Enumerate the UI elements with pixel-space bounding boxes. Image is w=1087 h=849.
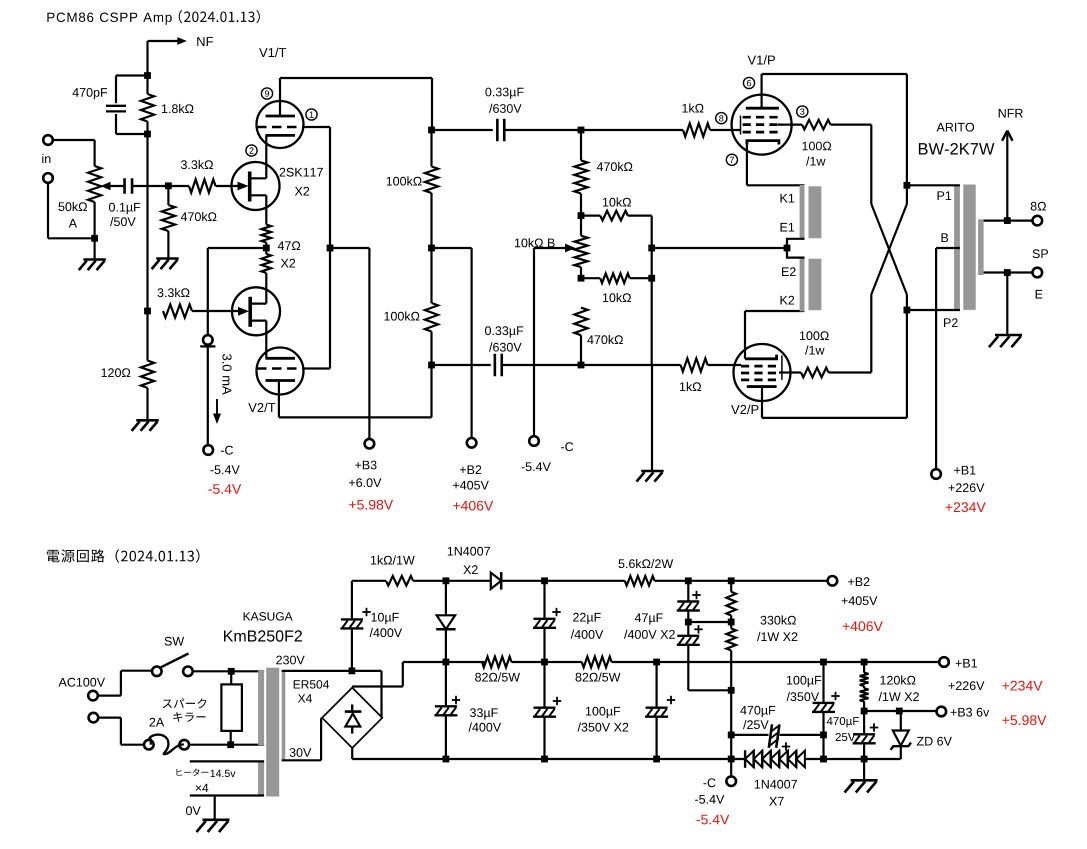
label E1	[781, 223, 795, 232]
wire to 330k top	[688, 580, 731, 582]
ground heater	[214, 796, 216, 820]
zener ZD 6V	[900, 711, 902, 731]
node A bottom junction	[144, 131, 151, 138]
title PCM86 CSPP Amp (2024.01.13)	[47, 13, 171, 25]
capacitor 0.33uF/630V upper	[432, 129, 493, 131]
diode 1N4007 X2	[446, 580, 491, 582]
transformer T2 heater winding	[258, 761, 264, 796]
wire +B3 line	[864, 710, 937, 712]
wire to grid node	[132, 185, 189, 187]
resistor 1k V2/P grid	[681, 358, 708, 371]
resistor 100ohm/1w lower	[779, 371, 801, 373]
node 47ohm midpoint	[265, 243, 267, 254]
label AC100V	[59, 678, 106, 687]
pot wiper arrow	[101, 182, 111, 190]
resistor 100k upper	[430, 130, 432, 167]
transformer T1 cathode winding lower	[800, 257, 805, 311]
resistor 100ohm/1w upper	[778, 123, 802, 125]
node rail1 junction 22uF	[541, 659, 548, 666]
node grid junction	[165, 182, 172, 189]
fuse 2A	[144, 740, 154, 750]
terminal -C mid	[529, 436, 539, 446]
resistor 470k input	[167, 186, 169, 205]
wire 47uF bottom return	[688, 689, 731, 691]
ground balance	[641, 470, 663, 473]
wire V2/T plate out	[278, 381, 280, 418]
testpoint -C upper	[203, 335, 213, 345]
bottom rail wire	[352, 758, 745, 760]
capacitor 33uF/400V	[445, 662, 447, 706]
node after diode junction	[541, 577, 548, 584]
node 230V junction	[349, 668, 356, 675]
label V2/T	[248, 403, 275, 413]
V2/P grid side rod	[781, 355, 783, 380]
wire V2/P cathode to K2	[744, 311, 746, 359]
terminal +B3	[365, 439, 375, 449]
resistor 1.8k	[146, 76, 148, 95]
wire -C vertical	[730, 690, 732, 776]
terminal SP	[1033, 268, 1043, 278]
resistor 1k V1/P grid	[581, 129, 683, 131]
node E1 E2 taps	[787, 239, 805, 258]
ground input	[93, 238, 95, 259]
node NF label	[197, 37, 213, 46]
resistor 330k/1W X2	[726, 592, 736, 616]
terminal AC upper	[88, 691, 98, 701]
node rail1 junction	[443, 659, 450, 666]
node pot bottom junction	[91, 235, 98, 242]
node spark killer top junction	[228, 668, 235, 675]
resistor 47ohm upper	[262, 225, 272, 243]
potentiometer 10k B	[580, 216, 582, 236]
wire screen V1/P to P2 cross	[870, 125, 872, 204]
diode half-wave vertical	[445, 581, 447, 615]
node 47uF return junction	[728, 687, 735, 694]
resistor 470k balance lower	[574, 308, 587, 336]
node cap2 junction	[428, 362, 435, 369]
wire V1/T cathode to Q1 drain	[265, 135, 267, 178]
tube V2/T	[257, 348, 304, 395]
transformer T2 core	[266, 668, 279, 797]
wire V1/T grid	[304, 126, 331, 128]
tube V1/P pentode	[732, 95, 792, 155]
terminal -C psu	[726, 776, 736, 786]
wire wiper to -C	[533, 248, 535, 437]
node balance top junction	[578, 127, 585, 134]
label V1/P	[748, 55, 775, 65]
terminal -C left	[203, 445, 213, 455]
node rail0 junction 33uF	[443, 756, 450, 763]
label V2/P	[731, 405, 758, 415]
wire NF net vertical	[146, 134, 148, 311]
node rail1 junction 100uF c	[820, 659, 827, 666]
label ARITO	[937, 123, 975, 132]
wire switch to transformer	[192, 670, 264, 672]
wire to Q1 gate with arrow	[216, 185, 243, 187]
terminal in lower	[43, 173, 53, 183]
label P1	[938, 191, 952, 200]
V1/P cathode	[747, 141, 779, 145]
wire V2/T grid	[304, 367, 331, 369]
V1/P grids dashed rows	[743, 116, 781, 119]
resistor 47ohm lower	[262, 254, 272, 273]
V2/P plate bar	[747, 385, 777, 388]
wire pot bottom	[93, 202, 95, 238]
capacitor 470uF/25V tilted	[731, 734, 768, 736]
resistor 82ohm/5W second	[582, 657, 612, 668]
transformer T1 secondary winding	[978, 219, 984, 275]
wire input lower	[47, 182, 49, 238]
V1/T plate bar	[266, 115, 296, 118]
label KASUGA	[244, 612, 293, 621]
node 10k lower junction	[648, 275, 655, 282]
transformer T1 cathode winding upper	[800, 185, 805, 239]
capacitor 0.1uF/50V	[123, 178, 126, 194]
wire B tap to +B1	[936, 247, 960, 249]
node rail1 junction 120k	[861, 659, 868, 666]
node rail0 junction 100uF a	[541, 756, 548, 763]
heater winding wires	[190, 760, 264, 762]
capacitor 0.33uF/630V lower	[432, 364, 491, 366]
label 30V	[290, 748, 312, 757]
node P2 junction	[904, 307, 911, 314]
capacitor 47uF/400V X2 stack	[687, 581, 689, 602]
resistor 82ohm/5W first	[482, 657, 512, 668]
resistor 120ohm	[146, 311, 148, 361]
node +B2 tap junction	[428, 245, 435, 252]
pot wiper arrow	[534, 247, 568, 249]
pin 6 circled	[743, 77, 754, 88]
terminal +B2 psu	[828, 576, 838, 586]
wire fuse to transformer	[189, 744, 265, 746]
wire to +B2 terminal psu	[731, 580, 828, 582]
switch SW	[152, 667, 162, 677]
wire balance right vertical	[651, 216, 653, 365]
node 470uF left junction	[728, 732, 735, 739]
node 470uF right junction	[820, 732, 827, 739]
wire V2/P plate to P2	[761, 387, 763, 418]
wire 230V to bridge	[282, 670, 352, 672]
wire balance to ground	[651, 365, 653, 471]
resistor 3.3k upper	[189, 179, 216, 192]
resistor 120k/1W X2	[863, 662, 865, 673]
node in label	[42, 154, 50, 163]
node spark killer bottom junction	[227, 741, 234, 748]
wire bias drop	[207, 248, 209, 336]
node 47uF top junction	[685, 577, 692, 584]
wire V1/T plate to node P	[279, 78, 281, 116]
V2/T top bar	[266, 357, 296, 360]
wire secondary SP	[984, 271, 1033, 273]
node 330k top junction	[728, 577, 735, 584]
node NF bottom junction	[144, 308, 151, 315]
resistor 470k balance upper	[580, 130, 582, 160]
label B	[942, 233, 949, 242]
node P junction	[428, 127, 435, 134]
wire to +B2 terminal	[432, 247, 472, 249]
wire AC lower to fuse	[98, 716, 121, 718]
pin 3 circled	[797, 106, 808, 117]
wire bridge plus out	[352, 685, 403, 687]
V1/P grid side rod	[740, 116, 742, 135]
title power supply (2024.01.13)	[47, 549, 200, 563]
wire 30V to bridge	[282, 759, 321, 761]
label K2	[781, 296, 795, 305]
node grids junction	[327, 245, 334, 252]
label E2	[782, 267, 796, 276]
terminal +B1 amp	[931, 469, 941, 479]
wire to -C terminal	[207, 346, 209, 445]
capacitor 470pF	[116, 74, 148, 76]
node balance bottom junction	[578, 275, 585, 282]
resistor 3.3k lower	[163, 304, 192, 317]
node +B3 tap junction	[861, 708, 868, 715]
ground secondary	[1006, 273, 1008, 336]
V2/T grid dashed	[257, 367, 304, 370]
V2/T bottom bar	[266, 379, 296, 382]
pin 9 circled	[261, 88, 272, 99]
label 230V	[276, 656, 305, 665]
node 470k bottom junction	[578, 362, 585, 369]
node rail0 junction 100uF b	[653, 756, 660, 763]
wire V1/P plate to P1	[760, 74, 762, 108]
resistor 1k/1W	[352, 580, 386, 582]
potentiometer 50k A	[88, 166, 101, 202]
capacitor 100uF/350V b	[655, 662, 657, 708]
spark killer	[230, 671, 232, 684]
wire Q1 source	[265, 195, 267, 224]
wire input top	[52, 139, 94, 141]
wire AC upper to switch	[97, 694, 121, 696]
transformer T1 core	[963, 185, 975, 310]
node rail0 junction 330k line	[728, 756, 735, 763]
node zener top junction	[896, 708, 903, 715]
wire 330k mid tap	[688, 621, 731, 623]
node bias diode junction	[443, 577, 450, 584]
capacitor 100uF/350V c	[822, 662, 824, 703]
V2/P cathode	[745, 355, 777, 359]
resistor 10k upper	[581, 215, 600, 217]
tube V1/T	[257, 101, 304, 148]
terminal AC lower	[89, 713, 99, 723]
transistor Q1 2SK117	[232, 162, 280, 210]
wire E tap to transformer	[652, 247, 787, 249]
label BW-2K7W	[919, 143, 995, 155]
diode chain 1N4007 X7	[745, 751, 754, 768]
transistor Q2 2SK117	[232, 287, 280, 335]
wire NF takeoff with arrow	[146, 41, 148, 79]
V2/P grids dashed rows	[741, 365, 779, 368]
wire NFR arrow	[1006, 132, 1008, 221]
label P2	[944, 318, 958, 327]
wire secondary 8ohm	[984, 220, 1033, 222]
ground 120ohm	[136, 419, 158, 422]
terminal +B2	[467, 438, 477, 448]
node rail1 junction 100uF b	[653, 659, 660, 666]
terminal +B3 psu	[937, 707, 947, 717]
pin 1 circled	[306, 109, 317, 120]
wire to Q2 gate with arrow	[192, 310, 243, 312]
label 2SK117 X2	[280, 168, 323, 177]
ground psu right	[863, 759, 865, 780]
resistor 5.6k/2W	[545, 580, 625, 582]
wire bias to 47ohm mid	[208, 247, 266, 249]
capacitor 22uF/400V	[543, 581, 545, 619]
transformer T2 secondary winding	[282, 670, 286, 761]
pin 7 circled	[726, 154, 737, 165]
V1/T grid dashed	[257, 126, 304, 129]
wire Q2 source to V2/T	[265, 321, 267, 359]
node rail0 junction 100uF c	[820, 756, 827, 763]
label 3.0 mA arrow	[222, 354, 231, 395]
wire to +B3 terminal	[330, 247, 369, 249]
wire bridge minus out	[351, 748, 353, 759]
wire Q2 drain to 47ohm	[265, 273, 267, 304]
label K1	[781, 194, 795, 203]
node P1 junction	[904, 182, 911, 189]
node rail0 junction 470uF b	[861, 756, 868, 763]
pin 8 circled	[716, 113, 727, 124]
V1/P plate bar	[746, 107, 779, 110]
tube V2/P pentode	[734, 344, 791, 401]
terminal in upper	[43, 135, 53, 145]
node A top junction	[144, 72, 151, 79]
transformer T1 primary winding	[954, 185, 960, 310]
label 0V	[186, 806, 201, 815]
terminal +B1 psu	[939, 657, 949, 667]
transformer T2 primary winding	[258, 670, 264, 746]
label ER504 X4	[294, 680, 329, 689]
wire bias tap vertical	[351, 581, 353, 620]
capacitor 10uF/400V	[341, 618, 363, 620]
node E tap junction	[648, 245, 655, 252]
capacitor 470uF/25V b	[863, 711, 865, 734]
V1/T cathode bar	[266, 134, 296, 137]
node balance mid junction	[578, 212, 585, 219]
terminal 8ohm	[1033, 216, 1043, 226]
resistor 100k lower	[425, 303, 438, 332]
label KmB250F2	[224, 630, 302, 641]
ground 470k	[156, 257, 178, 260]
wire V1/P cathode to K1	[746, 145, 748, 186]
pin 2 circled	[246, 145, 257, 156]
label V1/T	[259, 48, 286, 58]
wire screen V2/P to P1 cross	[870, 295, 872, 373]
capacitor 100uF/350V a	[543, 662, 545, 708]
resistor 10k lower	[581, 277, 600, 279]
bridge rectifier	[322, 688, 382, 748]
